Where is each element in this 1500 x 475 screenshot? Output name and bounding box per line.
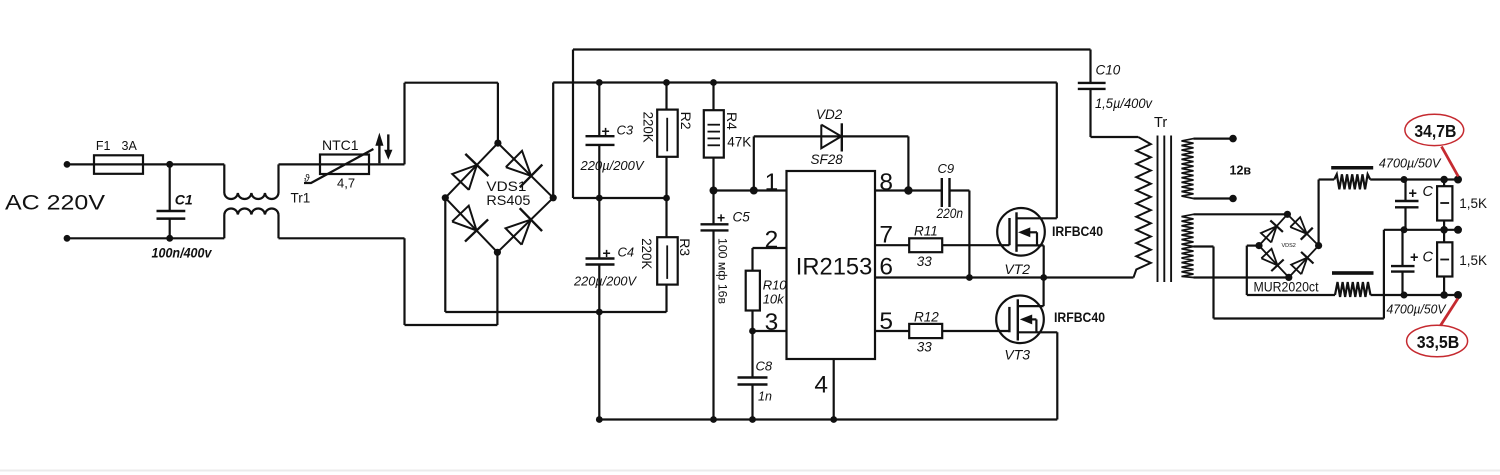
svg-text:R10: R10 bbox=[763, 278, 788, 293]
svg-text:Tr1: Tr1 bbox=[291, 191, 311, 206]
svg-text:33,5В: 33,5В bbox=[1417, 332, 1460, 352]
svg-text:47K: 47K bbox=[727, 135, 751, 150]
svg-text:8: 8 bbox=[879, 169, 893, 196]
svg-text:1,5µ/400v: 1,5µ/400v bbox=[1095, 96, 1153, 111]
svg-text:ϑ: ϑ bbox=[304, 174, 310, 185]
svg-text:C10: C10 bbox=[1096, 63, 1121, 78]
svg-text:VT3: VT3 bbox=[1004, 347, 1030, 363]
svg-text:10k: 10k bbox=[763, 292, 785, 307]
svg-text:34,7В: 34,7В bbox=[1414, 121, 1456, 141]
svg-text:C3: C3 bbox=[617, 123, 634, 138]
svg-text:C: C bbox=[1423, 250, 1434, 266]
svg-text:220n: 220n bbox=[936, 206, 963, 221]
svg-text:VDS1: VDS1 bbox=[486, 179, 526, 194]
svg-text:+: + bbox=[1410, 250, 1418, 266]
svg-text:220µ/200V: 220µ/200V bbox=[573, 274, 637, 289]
svg-text:33: 33 bbox=[917, 340, 933, 355]
svg-text:IRFBC40: IRFBC40 bbox=[1052, 224, 1103, 239]
svg-text:+: + bbox=[602, 123, 610, 139]
svg-text:1: 1 bbox=[765, 169, 779, 196]
svg-text:220K: 220K bbox=[641, 112, 657, 144]
svg-text:R12: R12 bbox=[914, 310, 939, 325]
svg-text:R2: R2 bbox=[678, 112, 694, 130]
svg-text:R3: R3 bbox=[677, 238, 693, 256]
svg-text:MUR2020ct: MUR2020ct bbox=[1254, 279, 1319, 294]
svg-text:RS405: RS405 bbox=[486, 193, 530, 208]
svg-text:3A: 3A bbox=[122, 139, 138, 153]
svg-text:IR2153: IR2153 bbox=[796, 253, 873, 280]
svg-text:R11: R11 bbox=[914, 224, 938, 239]
svg-text:4: 4 bbox=[814, 372, 828, 399]
svg-text:+: + bbox=[1409, 186, 1417, 202]
svg-text:12в: 12в bbox=[1230, 164, 1252, 178]
svg-text:4,7: 4,7 bbox=[337, 176, 355, 191]
svg-text:C: C bbox=[1423, 184, 1434, 200]
svg-text:C1: C1 bbox=[175, 192, 193, 208]
svg-text:SF28: SF28 bbox=[811, 152, 844, 167]
svg-text:220µ/200V: 220µ/200V bbox=[580, 158, 645, 173]
svg-text:1,5K: 1,5K bbox=[1459, 196, 1487, 211]
svg-text:+: + bbox=[717, 210, 725, 226]
svg-text:2: 2 bbox=[765, 227, 779, 254]
svg-text:100n/400v: 100n/400v bbox=[152, 245, 213, 261]
svg-text:IRFBC40: IRFBC40 bbox=[1054, 310, 1105, 325]
svg-text:C8: C8 bbox=[756, 359, 773, 374]
svg-text:VD2: VD2 bbox=[816, 107, 843, 122]
svg-text:1n: 1n bbox=[758, 390, 772, 404]
svg-text:100 мф 16в: 100 мф 16в bbox=[716, 238, 728, 304]
svg-text:220K: 220K bbox=[639, 238, 655, 270]
svg-text:R4: R4 bbox=[724, 112, 740, 130]
svg-text:C4: C4 bbox=[618, 245, 635, 260]
svg-text:33: 33 bbox=[917, 254, 933, 269]
svg-text:1,5K: 1,5K bbox=[1459, 253, 1487, 268]
svg-text:NTC1: NTC1 bbox=[322, 137, 359, 153]
svg-text:+: + bbox=[603, 245, 611, 261]
svg-text:Tr: Tr bbox=[1154, 115, 1167, 131]
svg-text:C9: C9 bbox=[938, 161, 955, 176]
svg-text:F1: F1 bbox=[96, 139, 111, 153]
svg-text:VT2: VT2 bbox=[1004, 261, 1030, 277]
svg-text:C5: C5 bbox=[733, 210, 751, 225]
svg-text:AC 220V: AC 220V bbox=[5, 190, 106, 214]
svg-text:4700µ/50V: 4700µ/50V bbox=[1379, 156, 1442, 171]
svg-text:4700µ/50V: 4700µ/50V bbox=[1387, 302, 1447, 317]
svg-text:VDS2: VDS2 bbox=[1282, 243, 1296, 249]
